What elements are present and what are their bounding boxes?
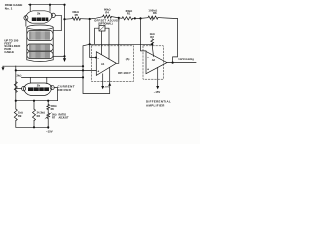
node label offset adjust: [94, 18, 120, 25]
wire A2 output: [167, 62, 196, 64]
node dots bottom gauge rail: [15, 100, 50, 102]
wire R2c into A2: [152, 45, 153, 57]
svg-text:2kΩ: 2kΩ: [17, 74, 22, 78]
wire excitation drop X1: [64, 5, 66, 59]
gauge G2 value 2k: [37, 83, 41, 87]
node label: cable text: [4, 38, 20, 54]
wire G1 right terminal to cable top: [53, 15, 61, 30]
wire bottom gauge rail: [16, 100, 58, 102]
wire ground return W66: [3, 65, 83, 67]
svg-text:R5: R5: [75, 13, 79, 17]
svg-text:A2: A2: [152, 58, 156, 62]
svg-text:+: +: [147, 68, 149, 72]
svg-text:+: +: [97, 69, 99, 73]
node label -15V: [46, 129, 53, 133]
node label R4: [104, 8, 111, 15]
gauge G1 element dark band: [32, 18, 49, 22]
node label A1 supply: [104, 86, 109, 88]
resistor R2c vertical: [151, 39, 154, 45]
svg-text:R6: R6: [51, 108, 55, 111]
pin A1 V-minus: [102, 74, 104, 86]
cable bundle section 3: [27, 51, 53, 58]
wire A1 inverting branch: [90, 19, 97, 58]
svg-text:No. 1: No. 1: [5, 6, 13, 10]
wire stub rail to gauge G1 top-left: [29, 5, 31, 11]
node label A1 inside: [101, 62, 105, 66]
arrow excitation: [63, 58, 66, 62]
wire V3 drop: [83, 44, 110, 93]
node dots bottom return: [33, 126, 49, 128]
gauge G2 right terminal: [50, 85, 54, 89]
svg-text:R7: R7: [52, 117, 56, 120]
resistor R1: [122, 17, 133, 20]
svg-text:24.3kΩ: 24.3kΩ: [37, 111, 45, 115]
wire stub G2 top-left: [29, 77, 31, 83]
node label R3: [37, 111, 45, 119]
wire sense W70 to A1 plus input: [16, 69, 97, 71]
node label (A): [126, 57, 130, 61]
node label R5: [72, 10, 79, 17]
svg-text:R8: R8: [153, 11, 157, 15]
svg-text:-15V: -15V: [104, 86, 109, 88]
arrow A1 supply up: [108, 83, 111, 86]
svg-text:OP-10CY: OP-10CY: [118, 71, 131, 75]
wire feedback rail: [65, 17, 178, 20]
node label differential amplifier: [146, 100, 171, 108]
wire cable bottom to X1: [53, 55, 64, 57]
svg-text:2k: 2k: [37, 83, 41, 87]
node label R2c: [150, 32, 155, 39]
wire A2 plus input: [141, 18, 147, 51]
svg-text:DRIVER: DRIVER: [58, 88, 72, 92]
svg-text:(OPTIONAL): (OPTIONAL): [98, 22, 113, 25]
resistor R9 bottom left: [15, 101, 17, 109]
dashed box A1: [92, 46, 134, 82]
svg-text:−: −: [147, 56, 149, 60]
cable bundle section 1: [27, 31, 53, 41]
pin minus A1: [97, 56, 99, 60]
resistor R6 gain chain: [47, 101, 49, 105]
svg-text:AMPLIFIER: AMPLIFIER: [146, 103, 165, 107]
wire W44 feedback to R2c: [90, 43, 153, 45]
node label: active gauge text: [5, 3, 23, 10]
gauge G2 element dark band: [28, 87, 49, 91]
pot wiper arrow: [45, 113, 51, 119]
resistor R8: [148, 16, 158, 19]
wire A1 output to rail: [116, 18, 119, 63]
node dot W70 at V3: [82, 69, 84, 71]
gauge G1 left terminal: [24, 16, 28, 20]
svg-text:R9: R9: [18, 114, 22, 118]
node dot W66 at V3: [82, 65, 84, 67]
node dots rail: [63, 17, 141, 21]
ground arrow left: [2, 66, 4, 67]
gauge G1 right terminal: [51, 13, 55, 17]
node label R7 ratio adjust: [52, 114, 69, 120]
wire G1 left terminal into cable: [25, 20, 27, 26]
node dot W77 at V3: [82, 76, 84, 78]
wire G2 right terminal to bottom rail: [54, 88, 57, 101]
node label OP-10CY: [118, 71, 131, 75]
resistor R2 on V2: [14, 82, 17, 93]
node dot output: [172, 62, 174, 64]
pin plus A1: [97, 69, 99, 73]
svg-text:−15V: −15V: [154, 90, 161, 94]
node label: current driver: [58, 84, 75, 92]
svg-text:(A): (A): [126, 57, 130, 61]
svg-text:R4: R4: [105, 10, 109, 14]
svg-text:ADJUST: ADJUST: [59, 117, 69, 120]
potentiometer body: [99, 26, 105, 32]
pin A2 V-minus: [157, 68, 159, 87]
wire dummy gauge top W77: [22, 76, 84, 78]
svg-text:R2: R2: [150, 35, 154, 39]
resistor R5: [72, 17, 81, 20]
gauge G1 value 2k: [37, 12, 41, 16]
gauge G2 left terminal: [22, 86, 26, 90]
node label output: [178, 57, 194, 61]
wire bottom return rail: [16, 126, 48, 128]
svg-text:A1: A1: [101, 62, 105, 66]
node dot X1 cable junction: [63, 55, 65, 57]
node label R2 value: [17, 74, 22, 78]
wire V2 vertical left: [15, 66, 17, 101]
svg-text:1kΩ: 1kΩ: [18, 111, 23, 115]
op-amp A1: [96, 52, 116, 76]
svg-text:−: −: [97, 56, 99, 60]
node label -15V A2: [154, 90, 161, 94]
cable bundle section 2: [27, 44, 53, 51]
pin plus A2: [147, 68, 149, 72]
wire pot wiper: [101, 31, 103, 55]
gauge G2 body: [23, 83, 52, 95]
svg-text:CABLE: CABLE: [4, 50, 14, 54]
pot R7 ratio adjust: [47, 110, 49, 114]
node label R1: [126, 9, 133, 15]
node label R8: [148, 9, 157, 16]
node dot W44 junction: [89, 43, 91, 45]
op-amp A2: [146, 52, 167, 74]
node dot R2c on W44: [151, 43, 153, 45]
node label R9: [18, 111, 23, 119]
wire feedback to R8: [173, 19, 178, 63]
node junction dots top rail: [29, 4, 66, 6]
wire G2 left terminal to V2: [16, 88, 22, 90]
wire stub rail to gauge G1 top-right: [49, 5, 51, 12]
node label R6: [51, 105, 57, 111]
svg-text:R1: R1: [127, 11, 131, 15]
wire R2c top (hidden in scan): [151, 18, 153, 21]
dashed box A2: [143, 46, 163, 79]
node label A2 inside: [152, 58, 156, 62]
wire top excitation rail: [29, 4, 65, 6]
svg-text:−15V: −15V: [46, 129, 53, 133]
resistor R4: [103, 15, 112, 18]
resistor R3 bottom mid: [33, 101, 35, 109]
wire pot right leg: [105, 28, 109, 59]
cable shield capsule: [27, 27, 53, 60]
wire stub G2 top-right: [46, 77, 48, 83]
gauge G1 body: [25, 11, 52, 23]
svg-text:2k: 2k: [37, 12, 41, 16]
node dot A1 inv at triangle: [95, 57, 97, 59]
wire pot left leg: [95, 28, 99, 44]
pin minus A2: [147, 56, 149, 60]
svg-text:R3: R3: [37, 114, 41, 118]
svg-text:1mV/mmHg: 1mV/mmHg: [178, 57, 194, 61]
node dot W70 on V2: [15, 69, 17, 71]
